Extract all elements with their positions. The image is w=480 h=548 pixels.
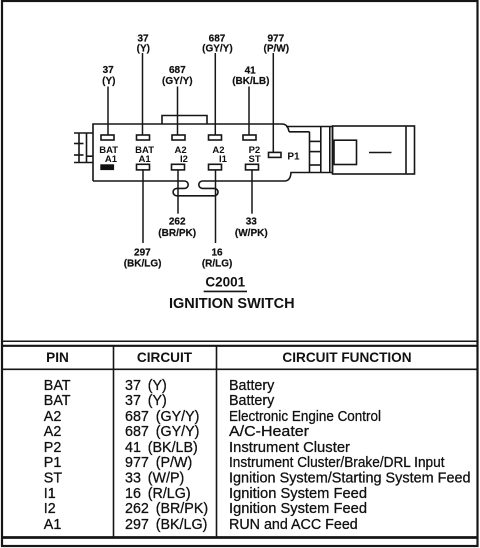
- svg-text:37 (Y): 37 (Y): [125, 378, 167, 394]
- svg-text:PIN: PIN: [46, 350, 69, 365]
- svg-text:687 (GY/Y): 687 (GY/Y): [125, 424, 199, 440]
- svg-text:(R/LG): (R/LG): [202, 259, 233, 270]
- svg-text:A2: A2: [44, 409, 62, 425]
- svg-text:262: 262: [169, 217, 186, 228]
- svg-text:33 (W/P): 33 (W/P): [125, 471, 184, 487]
- svg-text:(P/W): (P/W): [264, 44, 290, 55]
- svg-text:Ignition System/Starting Syste: Ignition System/Starting System Feed: [229, 471, 471, 487]
- svg-text:P2: P2: [44, 440, 62, 456]
- svg-text:41 (BK/LB): 41 (BK/LB): [125, 440, 198, 456]
- svg-text:I1: I1: [44, 486, 56, 502]
- svg-text:I2: I2: [44, 501, 56, 517]
- svg-text:BAT: BAT: [44, 378, 71, 394]
- svg-text:(BR/PK): (BR/PK): [158, 228, 196, 239]
- svg-text:297: 297: [134, 248, 151, 259]
- svg-text:687 (GY/Y): 687 (GY/Y): [125, 409, 199, 425]
- svg-text:37 (Y): 37 (Y): [125, 393, 167, 409]
- svg-text:RUN and ACC Feed: RUN and ACC Feed: [229, 517, 358, 533]
- svg-text:41: 41: [245, 66, 257, 77]
- svg-text:(BK/LB): (BK/LB): [232, 76, 269, 87]
- svg-text:687: 687: [169, 65, 186, 76]
- svg-text:A1: A1: [44, 517, 62, 533]
- svg-text:977 (P/W): 977 (P/W): [125, 455, 192, 471]
- svg-text:Battery: Battery: [229, 378, 275, 394]
- svg-text:(GY/Y): (GY/Y): [162, 76, 193, 87]
- svg-text:16 (R/LG): 16 (R/LG): [125, 486, 191, 502]
- svg-text:CIRCUIT: CIRCUIT: [137, 350, 193, 365]
- svg-text:CIRCUIT FUNCTION: CIRCUIT FUNCTION: [282, 350, 411, 365]
- svg-text:A2: A2: [44, 424, 62, 440]
- svg-text:BAT: BAT: [44, 393, 71, 409]
- svg-text:ST: ST: [249, 154, 261, 165]
- svg-text:C2001: C2001: [205, 274, 245, 289]
- svg-text:Ignition System Feed: Ignition System Feed: [229, 501, 367, 517]
- svg-text:37: 37: [103, 65, 115, 76]
- svg-text:I1: I1: [219, 154, 228, 165]
- svg-text:262 (BR/PK): 262 (BR/PK): [125, 501, 208, 517]
- svg-text:P1: P1: [287, 152, 300, 163]
- svg-text:(Y): (Y): [137, 44, 150, 55]
- svg-text:33: 33: [246, 217, 258, 228]
- svg-text:Ignition System Feed: Ignition System Feed: [229, 486, 367, 502]
- svg-text:297 (BK/LG): 297 (BK/LG): [125, 517, 207, 533]
- svg-text:I2: I2: [180, 154, 188, 165]
- svg-text:Battery: Battery: [229, 393, 275, 409]
- svg-text:(GY/Y): (GY/Y): [202, 44, 233, 55]
- svg-text:A1: A1: [105, 154, 118, 165]
- svg-text:P1: P1: [44, 455, 62, 471]
- svg-text:Electronic Engine Control: Electronic Engine Control: [229, 409, 381, 425]
- svg-text:ST: ST: [44, 471, 63, 487]
- svg-text:A1: A1: [139, 154, 152, 165]
- svg-text:IGNITION SWITCH: IGNITION SWITCH: [169, 296, 295, 312]
- svg-text:Instrument Cluster/Brake/DRL I: Instrument Cluster/Brake/DRL Input: [229, 455, 445, 471]
- svg-text:A/C-Heater: A/C-Heater: [229, 424, 309, 440]
- svg-text:(Y): (Y): [102, 76, 115, 87]
- svg-text:(BK/LG): (BK/LG): [124, 259, 162, 270]
- svg-text:Instrument Cluster: Instrument Cluster: [229, 440, 350, 456]
- svg-text:(W/PK): (W/PK): [235, 228, 268, 239]
- svg-text:16: 16: [211, 248, 223, 259]
